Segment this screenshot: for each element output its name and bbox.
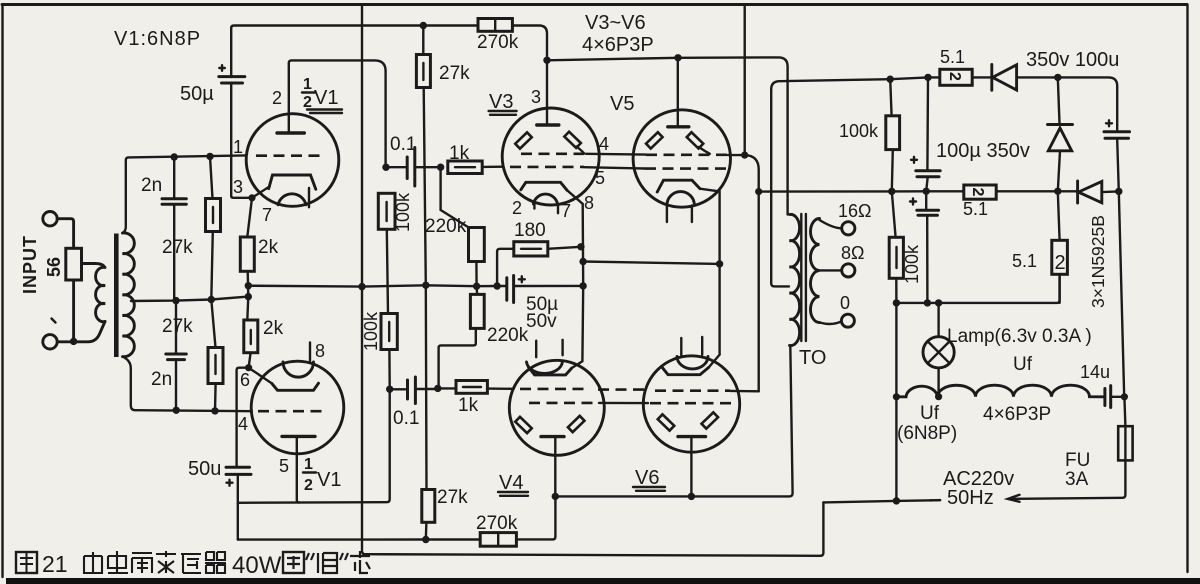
diode D2 vertical xyxy=(1048,77,1073,191)
terminal 0 xyxy=(841,314,854,327)
secondary tap 16 ohm xyxy=(820,220,842,228)
plus mark C8 xyxy=(1106,120,1112,126)
node mid rail / 27k column xyxy=(422,282,429,289)
wire T1 secondary top to V1 grid xyxy=(123,155,246,233)
node coil cap / rectifier column xyxy=(1121,393,1128,400)
node J2 wire xyxy=(70,338,77,345)
V4 contact left xyxy=(515,417,532,433)
transformer T1 core xyxy=(114,234,119,358)
V4 grid1 dashes row xyxy=(520,388,584,391)
svg-text:V4: V4 xyxy=(499,472,523,494)
V5 heater stub right xyxy=(691,206,693,223)
V6 grid1 dashes row xyxy=(655,389,730,392)
svg-text:220k: 220k xyxy=(425,216,467,237)
V6 cathode xyxy=(662,367,709,375)
wire top rail y=25 from C3 50u to 270k xyxy=(231,26,478,78)
caption quote open xyxy=(306,553,314,560)
resistor R15 180 xyxy=(497,242,581,286)
node lower plate rail / V4 xyxy=(552,493,559,500)
caption char yuan xyxy=(132,553,152,573)
resistor chain 100k A xyxy=(378,193,395,313)
svg-text:V1: V1 xyxy=(314,87,338,109)
V1 upper heater arc xyxy=(278,194,306,205)
label V6 with double underline xyxy=(633,467,665,491)
V5 grid1 dashes row xyxy=(645,167,731,170)
svg-text:5.1: 5.1 xyxy=(940,47,965,67)
svg-text:220k: 220k xyxy=(487,325,529,346)
output transformer TO secondary coil xyxy=(811,219,820,323)
V3 pin7 stub xyxy=(557,204,559,213)
caption char tu xyxy=(16,552,37,573)
resistor R12 27k bottom xyxy=(422,490,435,540)
node lower grid wire / 2n C2 xyxy=(173,407,180,414)
svg-text:3×1N5925B: 3×1N5925B xyxy=(1088,215,1108,308)
dashed link V4 to V6 grid row1 xyxy=(598,388,648,391)
wire J2 to transformer T1 primary bottom xyxy=(57,322,105,342)
wire fuse to AC right segment xyxy=(1009,460,1126,499)
svg-text:0: 0 xyxy=(840,293,850,313)
resistor R6 2k (V1 lower cathode) xyxy=(244,297,258,368)
node y303 / lamp xyxy=(935,299,942,306)
svg-text:7: 7 xyxy=(262,205,272,225)
svg-text:100k: 100k xyxy=(361,311,381,351)
V1 upper cathode xyxy=(269,175,316,189)
svg-text:1: 1 xyxy=(303,76,312,93)
wire cathode bus V3 to V4 vertical xyxy=(581,204,584,361)
V1 upper plate with stem xyxy=(277,60,386,167)
svg-text:56: 56 xyxy=(44,257,64,277)
svg-text:4×6P3P: 4×6P3P xyxy=(582,34,654,56)
lamp L1 xyxy=(923,303,954,397)
node y191 / 100k R1 bottom xyxy=(888,188,895,195)
caption char dan xyxy=(318,553,337,573)
V5 heater stub left xyxy=(666,206,668,223)
V4 cathode xyxy=(529,367,572,375)
node tap wire end / 2k R5 xyxy=(245,293,252,300)
caption char ya xyxy=(181,554,201,573)
V5 contact hook xyxy=(699,147,710,154)
node cathode bus / 180 xyxy=(577,243,584,250)
svg-text:5: 5 xyxy=(595,168,605,188)
svg-text:100k: 100k xyxy=(902,244,922,284)
border frame right xyxy=(1186,5,1188,573)
node 1k/220k junction lower xyxy=(434,385,441,392)
svg-text:V1:6N8P: V1:6N8P xyxy=(114,28,201,50)
svg-text:4: 4 xyxy=(238,414,248,434)
caption char guo xyxy=(283,552,304,573)
svg-text:14u: 14u xyxy=(1080,362,1110,382)
AC plug arrow right xyxy=(1008,495,1020,502)
node top rail / 27k R11 xyxy=(420,22,427,29)
border frame left xyxy=(1,5,3,578)
tube V5 envelope xyxy=(633,110,730,207)
V1 upper pin7 stub xyxy=(308,188,310,207)
V3 grid1 dashes row xyxy=(510,166,584,169)
V5 screen contact right xyxy=(687,132,704,148)
capacitor C5 0.1 coupling upper xyxy=(386,148,441,187)
svg-text:8Ω: 8Ω xyxy=(841,243,864,263)
caption quote close xyxy=(340,553,348,560)
V1 lower heater arc xyxy=(283,362,314,377)
speck mark near J2 xyxy=(52,319,56,323)
node B+ rail / 100k R1 xyxy=(887,76,894,83)
V1 lower pin8 stub xyxy=(309,343,311,363)
svg-text:0.1: 0.1 xyxy=(390,134,416,155)
svg-text:2: 2 xyxy=(512,198,522,218)
svg-text:1k: 1k xyxy=(449,143,470,164)
V6 cathode diagonal to pin column xyxy=(709,355,720,368)
svg-text:270k: 270k xyxy=(476,513,518,534)
caption char dian xyxy=(108,551,128,573)
resistor R8 220k upper xyxy=(441,167,485,286)
wire screen rail jog down to y=191 rail xyxy=(745,155,759,192)
svg-text:2: 2 xyxy=(272,88,282,108)
wire B+ rail y=79 with left curve xyxy=(771,77,940,89)
svg-text:2: 2 xyxy=(969,188,986,197)
node tap wire / 27k junction xyxy=(208,296,215,303)
svg-text:27k: 27k xyxy=(439,63,470,84)
node y191 rail / screen jog xyxy=(755,188,762,195)
wire D1 to 100u C8 corner xyxy=(1017,77,1118,130)
resistor R2 100k right lower xyxy=(889,191,903,303)
output transformer TO core xyxy=(801,214,806,341)
V5 plate with stem xyxy=(668,58,689,127)
svg-text:50µ: 50µ xyxy=(180,83,214,105)
wire 270k to V3 plate corner xyxy=(512,26,547,61)
node y191 / cap column xyxy=(923,188,930,195)
V4 contact right xyxy=(568,416,585,432)
wire cathode link to V5/V6 column xyxy=(583,262,720,264)
V4 plate with stem xyxy=(541,437,564,497)
V5 cathode xyxy=(657,180,700,192)
resistor R9 220k lower xyxy=(439,286,485,387)
V4 heater prong right xyxy=(561,340,563,355)
node coil / x896 xyxy=(893,393,900,400)
capacitor C4 50u (lower cathode) xyxy=(226,467,251,539)
svg-text:270k: 270k xyxy=(477,32,519,53)
svg-text:50u: 50u xyxy=(188,458,221,480)
svg-text:3: 3 xyxy=(531,87,541,107)
wire T1 secondary center tap xyxy=(131,297,248,301)
V5 cathode link to pin8 column xyxy=(700,189,720,264)
V3 cathode diagonal to bus xyxy=(567,190,583,204)
svg-text:V6: V6 xyxy=(635,467,659,489)
wire grid2 V3 to V5 xyxy=(586,153,646,156)
svg-text:16Ω: 16Ω xyxy=(838,201,871,221)
wire rail y=191 xyxy=(759,190,1119,193)
svg-text:100µ 350v: 100µ 350v xyxy=(936,140,1030,162)
node grid wire / 27k R-L1 xyxy=(206,153,213,160)
svg-text:4×6P3P: 4×6P3P xyxy=(983,404,1051,425)
svg-text:INPUT: INPUT xyxy=(20,235,40,294)
wire J1 to pot 56 xyxy=(57,219,73,249)
plus mark C9 xyxy=(911,157,917,163)
input terminal J2 (bottom) xyxy=(43,335,57,349)
wire pin6 node to 50u C4 column xyxy=(237,368,249,466)
wire V4 grid2 to V6 xyxy=(599,402,648,405)
capacitor C11 14u xyxy=(1105,386,1124,408)
svg-text:100k: 100k xyxy=(393,192,413,232)
svg-text:350v 100u: 350v 100u xyxy=(1026,49,1119,71)
svg-text:2: 2 xyxy=(946,72,963,81)
capacitor C10 lower filter xyxy=(917,191,939,303)
V3 pin2 stub xyxy=(533,204,535,208)
svg-text:7: 7 xyxy=(561,201,571,221)
V4 heater arc xyxy=(527,362,563,374)
transformer T1 primary coil xyxy=(96,267,105,321)
svg-text:2: 2 xyxy=(1055,252,1066,274)
V4 heater prong left xyxy=(535,341,537,358)
capacitor 2n C1 upper xyxy=(162,157,186,301)
AC plug tick left xyxy=(930,499,940,502)
caption char mian xyxy=(84,552,102,573)
svg-text:Uf: Uf xyxy=(920,403,940,424)
node mid wire / 2k R5 xyxy=(245,282,252,289)
svg-text:V3: V3 xyxy=(489,91,513,113)
resistor R-L2 27k lower xyxy=(208,300,223,411)
svg-text:1: 1 xyxy=(304,456,313,473)
caption figure number xyxy=(16,552,37,573)
svg-text:V5: V5 xyxy=(610,93,634,115)
svg-text:TO: TO xyxy=(799,347,826,369)
fuse FU xyxy=(1118,397,1132,461)
V3 cathode xyxy=(521,182,567,190)
V1 lower plate with stem xyxy=(282,436,315,502)
svg-text:27k: 27k xyxy=(162,316,193,337)
wire bottom row2 xyxy=(238,496,556,539)
svg-text:40W: 40W xyxy=(232,552,282,579)
node 1k/220k junction upper xyxy=(437,164,444,171)
svg-text:5.1: 5.1 xyxy=(1012,251,1037,271)
capacitor 2n C2 lower xyxy=(166,301,187,411)
label 1/2 V1 upper with underline xyxy=(302,76,342,113)
V3 screen contact left xyxy=(515,132,532,148)
resistor R13 270k top xyxy=(478,19,512,32)
capacitor C6 0.1 coupling lower xyxy=(390,377,438,404)
V1 lower grid dashes xyxy=(258,410,328,413)
capacitor C3 50u (V1 upper decoupling) xyxy=(219,77,252,198)
V1 upper cathode diagonal to pin3 node xyxy=(252,187,270,198)
node screen rail corner xyxy=(741,152,748,159)
output transformer TO primary coil xyxy=(790,214,800,345)
potentiometer 56 xyxy=(66,248,82,280)
node B+ rail / filter cap column xyxy=(924,74,931,81)
svg-text:100k: 100k xyxy=(839,121,879,141)
node mid rail / vertical 362 xyxy=(358,283,365,290)
svg-text:4: 4 xyxy=(599,134,609,154)
capacitor C7 50u 50v cathode bypass xyxy=(497,276,583,303)
V3 screen contact right xyxy=(564,132,581,148)
node lower grid wire / 27k R-L2 xyxy=(211,407,218,414)
resistor R-L1 27k upper xyxy=(206,156,221,299)
V6 plate with stem xyxy=(678,437,706,497)
svg-text:3: 3 xyxy=(233,177,243,197)
wire V6 grid1 to screen jog rail xyxy=(730,390,759,393)
wire screen rail top vertical xyxy=(744,5,746,156)
diode D1 xyxy=(992,65,1017,91)
svg-text:2n: 2n xyxy=(141,175,162,196)
resistor R10 1k lower xyxy=(438,381,514,394)
tube V1 upper half envelope xyxy=(246,114,339,207)
V5 heater arc xyxy=(667,192,695,206)
bottom black bar xyxy=(6,578,1200,584)
wire screen jog rail vertical xyxy=(758,192,760,392)
svg-text:(6N8P): (6N8P) xyxy=(897,423,957,444)
plus mark C10 xyxy=(910,199,916,205)
node V5/V6 cathode column xyxy=(716,260,723,267)
node tap wire / 2n C1 xyxy=(172,297,179,304)
caption char xin xyxy=(350,551,370,573)
node grid wire / 2n C1 xyxy=(171,153,178,160)
terminal 8 ohm xyxy=(842,264,855,277)
svg-text:5: 5 xyxy=(279,456,289,476)
svg-text:0.1: 0.1 xyxy=(393,408,419,429)
wire 5.1 to diode D1 xyxy=(972,76,992,78)
wire V5/V6 cathode column lower xyxy=(718,264,720,355)
wire 100k B node down to lower plate jog xyxy=(238,389,390,503)
node mid rail / 220k junction xyxy=(473,283,480,290)
node pin6 xyxy=(245,364,252,371)
svg-text:2k: 2k xyxy=(258,237,279,258)
resistor R11 27k mid column xyxy=(416,26,430,490)
svg-text:5.1: 5.1 xyxy=(963,199,988,219)
resistor R17 5.1 second xyxy=(964,185,996,199)
resistor R16 5.1 xyxy=(940,69,972,85)
svg-text:3A: 3A xyxy=(1065,469,1089,490)
tube V4 envelope xyxy=(509,360,604,455)
svg-text:50v: 50v xyxy=(526,311,557,332)
V4 cathode diagonal from bus xyxy=(572,361,583,368)
terminal 16 ohm xyxy=(842,222,855,235)
svg-text:V1: V1 xyxy=(317,469,341,491)
V3 contact hook xyxy=(577,147,585,154)
plus mark C4 xyxy=(227,480,233,486)
node cathode bus / wire to V5 V6 xyxy=(579,258,586,265)
node V1 plate / 0.1 C5 xyxy=(382,164,389,171)
secondary tap 8 ohm xyxy=(820,269,842,271)
wire y=303 heater feed xyxy=(896,274,1059,303)
diode D3 xyxy=(1078,181,1102,203)
svg-text:FU: FU xyxy=(1065,450,1090,471)
node lower plate rail / V6 xyxy=(688,493,695,500)
secondary tap 0 xyxy=(820,321,842,324)
svg-text:50Hz: 50Hz xyxy=(947,487,994,509)
wire plate rail V5 to output transformer primary top xyxy=(678,57,788,214)
svg-text:21: 21 xyxy=(42,551,68,577)
V5 screen contact left xyxy=(646,132,663,148)
V6 heater arc xyxy=(677,356,708,369)
svg-text:180: 180 xyxy=(514,220,546,241)
svg-text:27k: 27k xyxy=(437,487,468,508)
capacitor C9 100u 350v xyxy=(916,77,940,191)
node D1 out / D2 top xyxy=(1054,74,1061,81)
resistor R1 100k right xyxy=(886,79,900,191)
V6 heater prong right xyxy=(701,337,703,355)
resistor R14 270k bottom xyxy=(480,533,516,547)
V6 heater prong left xyxy=(680,338,682,356)
V6 contact right xyxy=(702,412,719,428)
wire heater column x=896 xyxy=(895,303,897,501)
node cathode bus / 50u xyxy=(579,282,586,289)
tube V6 envelope xyxy=(643,356,739,452)
node V3 plate rail xyxy=(543,57,550,64)
svg-text:6: 6 xyxy=(240,370,250,390)
svg-text:Uf: Uf xyxy=(1013,354,1033,375)
border frame top xyxy=(2,3,1187,6)
resistor R5 2k (V1 upper cathode) xyxy=(240,198,254,297)
resistor R18 5.1 vertical with 2 xyxy=(1052,191,1068,303)
wire pot 56 wiper to T1 primary top xyxy=(82,264,105,268)
wire pot 56 bottom to J2 node xyxy=(72,280,75,341)
svg-text:V3~V6: V3~V6 xyxy=(585,12,646,34)
wire T1 secondary bottom down to lower grid line xyxy=(123,357,252,412)
capacitor C8 100u top right xyxy=(1104,132,1130,192)
V3 grid2 dashes row xyxy=(521,153,586,156)
wire lower plate rail V4 V6 to transformer xyxy=(555,346,792,497)
V6 contact left xyxy=(658,414,675,430)
node AC / heater column xyxy=(893,497,900,504)
diagonal pin6 node to cathode xyxy=(249,368,272,384)
V1 upper grid dashes xyxy=(256,154,324,157)
node coil / lamp xyxy=(935,393,942,400)
resistor chain 100k B xyxy=(381,314,397,389)
node V1 upper cathode pin3 xyxy=(248,194,255,201)
node y303 / cap column xyxy=(924,299,931,306)
node y191 / D2 R18 xyxy=(1054,188,1061,195)
resistor R7 1k upper xyxy=(448,161,504,174)
tube V1 lower half envelope xyxy=(251,361,344,454)
svg-text:1: 1 xyxy=(233,137,243,157)
V3 plate with stem xyxy=(537,60,559,125)
node y191 / D3 out xyxy=(1115,188,1122,195)
label V4 with double underline xyxy=(498,472,528,496)
label V3 with double underline xyxy=(489,91,517,115)
wire screen rail vertical x=362 xyxy=(362,5,821,556)
node y303 / 100k R2 xyxy=(893,299,900,306)
svg-text:2n: 2n xyxy=(151,369,172,390)
V3 heater arc xyxy=(533,194,557,204)
svg-text:27k: 27k xyxy=(162,237,193,258)
wire AC down corner to bottom rail xyxy=(820,502,823,555)
caption char bian xyxy=(156,551,176,573)
svg-text:2: 2 xyxy=(304,477,313,494)
svg-text:2k: 2k xyxy=(263,318,284,339)
V6 grid2 dashes row xyxy=(650,402,733,405)
caption char qi xyxy=(205,552,226,573)
node bottom row2 / 27k R12 xyxy=(422,536,429,543)
node 0.1 C6 / 100k B xyxy=(386,386,393,393)
wire grid1 V3 to V5 xyxy=(584,167,645,168)
wire AC left segment xyxy=(823,500,940,502)
node V5 plate stem xyxy=(674,54,681,61)
V5 grid2 dashes row xyxy=(646,154,728,157)
node mid rail / 180+50u corner xyxy=(493,282,500,289)
wire V5 grid2 to node xyxy=(728,154,745,156)
wire plate rail V3 to V5 xyxy=(547,58,678,61)
svg-text:8: 8 xyxy=(315,341,325,361)
transformer T1 secondary coil xyxy=(123,233,135,357)
heater series coil Uf xyxy=(896,385,1103,397)
plus mark C3 xyxy=(219,65,225,71)
label 1/2 V1 lower xyxy=(303,456,341,494)
wire B+ tap to primary xyxy=(771,90,789,287)
V1 lower cathode xyxy=(272,383,319,390)
plus mark C7 xyxy=(519,276,525,282)
tube V3 envelope xyxy=(502,108,599,205)
V4 grid2 dashes row xyxy=(529,402,599,405)
svg-text:1k: 1k xyxy=(458,395,479,416)
input terminal J1 (top) xyxy=(43,212,57,226)
